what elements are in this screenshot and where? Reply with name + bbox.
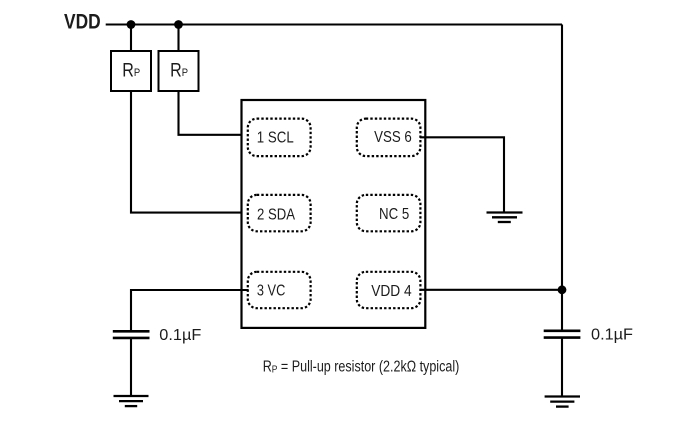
- pin 3 VC: [248, 272, 311, 308]
- capacitor C2: [544, 331, 581, 338]
- wire R2 top stem: [177, 25, 179, 53]
- svg-text:R: R: [170, 60, 182, 81]
- capacitor C1: [113, 331, 150, 338]
- node junction J3 (rail / VDD pin / C2): [558, 285, 567, 294]
- ground GND1 (VSS): [487, 213, 523, 223]
- wire right rail drop: [561, 25, 563, 291]
- pin VSS 6: [357, 119, 421, 157]
- node junction J2 (rail / R2): [174, 20, 183, 29]
- svg-text:2 SDA: 2 SDA: [257, 206, 295, 223]
- pin 2 SDA: [248, 195, 311, 231]
- svg-text:P: P: [182, 67, 188, 79]
- svg-text:VDD: VDD: [64, 11, 101, 34]
- svg-text:0.1µF: 0.1µF: [591, 326, 633, 343]
- svg-text:R: R: [122, 60, 134, 81]
- svg-text:0.1µF: 0.1µF: [159, 327, 201, 344]
- svg-text:3 VC: 3 VC: [257, 283, 285, 300]
- svg-text:VDD 4: VDD 4: [371, 283, 412, 300]
- ground GND2 (C1): [114, 396, 149, 406]
- wire R2 to SCL pin: [179, 91, 249, 135]
- resistor R1 (Rp pull-up): [111, 51, 151, 91]
- svg-text:1 SCL: 1 SCL: [257, 129, 294, 146]
- svg-text:NC 5: NC 5: [379, 206, 409, 223]
- svg-text:RP = Pull-up resistor (2.2kΩ t: RP = Pull-up resistor (2.2kΩ typical): [263, 358, 460, 375]
- pin NC 5: [357, 195, 421, 231]
- pin 1 SCL: [248, 119, 311, 157]
- wire R1 top stem: [130, 25, 132, 53]
- wire VDD pin 4 to rail: [421, 289, 562, 291]
- wire C2 to ground: [561, 338, 563, 397]
- pin VDD 4: [357, 272, 421, 308]
- svg-text:VSS 6: VSS 6: [374, 129, 412, 146]
- wire VDD top rail: [106, 23, 562, 25]
- wire C1 to ground: [130, 338, 132, 396]
- resistor R2 (Rp pull-up): [159, 51, 199, 91]
- ground GND3 (C2): [545, 397, 580, 407]
- node junction J1 (rail / R1): [127, 20, 136, 29]
- wire R1 to SDA pin: [131, 91, 249, 213]
- wire rail to C2: [561, 290, 563, 331]
- IC U1 body: [242, 100, 426, 328]
- wire VC pin to C1: [131, 290, 249, 331]
- wire VSS pin to ground: [420, 137, 504, 212]
- svg-text:P: P: [134, 67, 140, 79]
